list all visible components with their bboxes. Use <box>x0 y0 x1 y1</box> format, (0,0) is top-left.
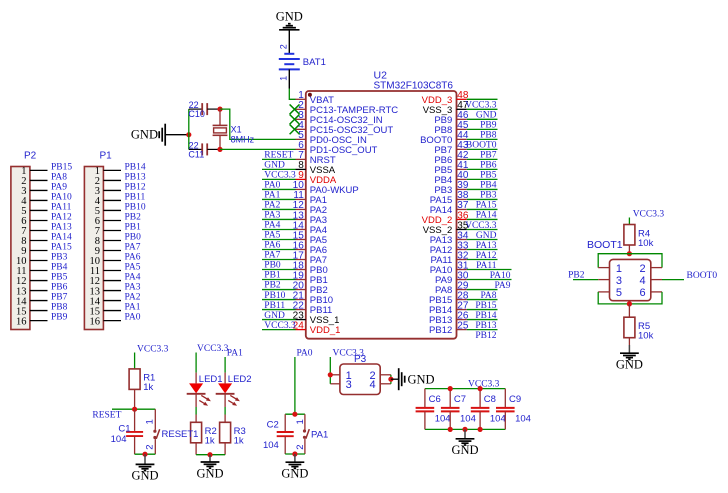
wire pin 11 net PA1 <box>262 198 296 200</box>
junction OSC_IN node <box>217 107 222 112</box>
ground (top, flipped) <box>276 10 303 30</box>
U2 pin 41 (PB5) <box>434 160 469 176</box>
wire P2 pin 16 net PB9 <box>30 320 48 322</box>
svg-text:PA13: PA13 <box>51 223 72 233</box>
junction jumper bottom <box>627 301 632 306</box>
wire pin 23 net GND <box>262 319 296 321</box>
wire pin 17 net PA7 <box>262 259 296 261</box>
U2 pin 45 (PB8) <box>434 120 469 136</box>
junction P3 left <box>328 372 333 377</box>
U2 pin 22 (PB11) <box>293 300 333 316</box>
svg-text:104: 104 <box>111 434 127 445</box>
wire R3 to gnd rail <box>224 443 226 455</box>
svg-text:PB15: PB15 <box>51 163 72 173</box>
svg-text:PB1: PB1 <box>264 271 281 281</box>
svg-text:GND: GND <box>131 469 158 483</box>
svg-text:P3: P3 <box>354 354 367 365</box>
wire OSC_IN to pin 5 <box>220 109 296 139</box>
U2 pin 36 (VDD_2) <box>422 210 469 226</box>
wire cap bank top rail <box>425 388 505 390</box>
wire pin 7 net RESET <box>262 158 296 160</box>
wire pin 40 net PB4 <box>467 178 498 180</box>
svg-text:C8: C8 <box>484 394 496 405</box>
svg-text:LED1: LED1 <box>199 374 223 385</box>
wire P1 pin 12 net PA4 <box>103 280 121 282</box>
U2 pin 40 (PB4) <box>434 170 469 186</box>
svg-text:P2: P2 <box>24 151 37 162</box>
svg-text:VCC3.3: VCC3.3 <box>264 321 296 331</box>
wire pin 47 net GND <box>467 108 498 110</box>
U2 pin 5 (PD0-OSC_IN) <box>296 130 367 146</box>
wire P2 pin 1 net PB15 <box>30 169 48 171</box>
svg-text:10k: 10k <box>638 331 654 342</box>
svg-text:5: 5 <box>616 287 622 299</box>
svg-text:STM32F103C8T6: STM32F103C8T6 <box>374 81 454 92</box>
ground (P3, sideways) <box>399 368 435 390</box>
svg-text:PA1: PA1 <box>311 430 328 441</box>
wire LED gnd rail <box>196 454 225 456</box>
svg-text:PB14: PB14 <box>125 163 146 173</box>
svg-text:GND: GND <box>131 128 158 142</box>
svg-text:PB6: PB6 <box>51 283 68 293</box>
wire P2 pin 11 net PB4 <box>30 270 48 272</box>
wire pin 12 net PA2 <box>262 208 296 210</box>
svg-text:GND: GND <box>196 466 223 480</box>
wire VCC3.3 to P3 <box>329 357 331 384</box>
wire pin 36 net VCC3.3 <box>467 218 498 220</box>
svg-text:1k: 1k <box>234 436 244 447</box>
svg-text:PB2: PB2 <box>568 271 585 281</box>
wire P2 pin 14 net PB7 <box>30 300 48 302</box>
wire P1 pin 3 net PB12 <box>103 189 121 191</box>
wire pin 30 net PA9 <box>467 279 512 281</box>
svg-text:2: 2 <box>145 444 156 449</box>
svg-text:PA15: PA15 <box>51 243 72 253</box>
svg-text:PB9: PB9 <box>51 313 68 323</box>
U2 pin 15 (PA5) <box>293 230 327 246</box>
wire P1 pin 8 net PB0 <box>103 239 121 241</box>
svg-text:PA11: PA11 <box>51 203 72 213</box>
svg-text:104: 104 <box>435 413 451 424</box>
svg-text:4: 4 <box>370 379 376 391</box>
ground (reset) <box>131 454 158 483</box>
junction cap bank C7 top <box>448 386 453 391</box>
U2 pin 19 (PB1) <box>293 270 328 286</box>
wire pin 18 net PB0 <box>262 269 296 271</box>
svg-text:2: 2 <box>279 44 289 49</box>
svg-text:1: 1 <box>616 263 622 275</box>
ground (LED) <box>196 455 223 481</box>
svg-text:GND: GND <box>616 358 643 372</box>
wire pin 20 net PB2 <box>262 289 296 291</box>
U2 pin 20 (PB2) <box>293 280 328 296</box>
svg-text:104: 104 <box>490 413 506 424</box>
wire P1 pin 2 net PB13 <box>103 179 121 181</box>
svg-text:VCC3.3: VCC3.3 <box>197 344 229 354</box>
junction oscillator gnd rail <box>186 132 191 137</box>
U2 pin 38 (PA15) <box>430 190 469 206</box>
junction reset rail <box>132 407 137 412</box>
svg-text:PA9: PA9 <box>51 183 67 193</box>
junction OSC_OUT node <box>217 147 222 152</box>
wire P2 pin 7 net PA13 <box>30 229 48 231</box>
wire P2 pin 5 net PA11 <box>30 209 48 211</box>
wire R4 to jumper <box>628 245 630 254</box>
svg-text:PB13: PB13 <box>125 173 146 183</box>
wire reset bottom rail <box>135 453 156 455</box>
svg-text:PA2: PA2 <box>125 293 141 303</box>
wire P1 pin 14 net PA2 <box>103 300 121 302</box>
wire pin 41 net PB5 <box>467 168 498 170</box>
svg-text:PB4: PB4 <box>51 263 68 273</box>
wire jumper bottom bracket <box>598 292 662 304</box>
junction cap bank gnd <box>462 427 467 432</box>
wire P2 pin 12 net PB5 <box>30 280 48 282</box>
U2 pin 23 (VSS_1) <box>293 310 340 326</box>
U2 pin 46 (PB9) <box>434 110 469 126</box>
wire net to LED2 <box>224 357 226 373</box>
svg-text:PA0: PA0 <box>125 313 141 323</box>
svg-text:PB12: PB12 <box>429 325 452 336</box>
wire R1 to reset rail <box>134 389 136 409</box>
wire pin 29 net PA8 <box>467 289 498 291</box>
svg-text:1: 1 <box>295 419 306 424</box>
wire P2 pin 2 net PA8 <box>30 179 48 181</box>
wire R2 to gnd rail <box>195 443 197 455</box>
U2 pin 16 (PA6) <box>293 240 327 256</box>
svg-text:PA0: PA0 <box>264 181 280 191</box>
wire P1 pin 16 net PA0 <box>103 320 121 322</box>
U2 pin 3 (PC14-OSC32_IN) <box>296 110 383 126</box>
U2 pin 18 (PB0) <box>293 260 328 276</box>
wire pin 28 net PB15 <box>467 299 498 301</box>
capacitor C9 (104) <box>496 389 531 430</box>
ground (button) <box>281 454 308 481</box>
wire pin 8 net GND <box>262 168 296 170</box>
svg-text:4: 4 <box>640 275 646 287</box>
capacitor C7 (104) <box>441 389 476 430</box>
wire battery to U2 pin1 <box>289 89 295 100</box>
capacitor C1 (104) <box>111 409 143 454</box>
svg-text:BOOT0: BOOT0 <box>687 271 718 281</box>
svg-text:X1: X1 <box>231 125 242 135</box>
capacitor C8 (104) <box>471 389 506 430</box>
svg-text:GND: GND <box>264 311 285 321</box>
U2 pin 9 (VDDA) <box>296 170 337 186</box>
wire VCC3.3 to R1 <box>134 353 136 369</box>
junction cap bank C8 bottom <box>478 427 483 432</box>
svg-text:C7: C7 <box>454 394 466 405</box>
svg-text:PB1: PB1 <box>125 223 142 233</box>
resistor R1 (1k) <box>129 369 155 393</box>
wire pin 38 net PA15 <box>467 198 498 200</box>
svg-text:BOOT1: BOOT1 <box>587 239 623 251</box>
wire pin 48 net VCC3.3 <box>467 98 498 100</box>
wire P3 to ground <box>391 378 399 380</box>
wire button top rail <box>285 413 305 415</box>
wire VCC3.3 to R4 <box>628 218 630 225</box>
svg-text:1k: 1k <box>205 436 215 447</box>
svg-text:104: 104 <box>263 440 279 451</box>
wire pin 15 net PA5 <box>262 238 296 240</box>
U2 pin 33 (PA12) <box>430 240 469 256</box>
wire P2 pin 3 net PA9 <box>30 189 48 191</box>
U2 pin 6 (PD1-OSC_OUT) <box>296 140 378 156</box>
svg-text:PA4: PA4 <box>264 221 280 231</box>
wire pin 27 net PB14 <box>467 309 498 311</box>
wire P1 pin 15 net PA1 <box>103 310 121 312</box>
wire P2 pin 6 net PA12 <box>30 219 48 221</box>
svg-text:U2: U2 <box>374 70 388 82</box>
svg-text:PA0: PA0 <box>297 348 313 358</box>
svg-text:GND: GND <box>264 161 285 171</box>
svg-text:2: 2 <box>640 263 646 275</box>
wire pin 24 net VCC3.3 <box>262 329 296 331</box>
svg-text:C2: C2 <box>267 419 279 430</box>
svg-text:VDD_1: VDD_1 <box>310 325 341 336</box>
no-connect X on pin 4 <box>290 124 300 134</box>
svg-text:10k: 10k <box>638 238 654 249</box>
connector P1 <box>84 151 112 330</box>
svg-text:PB10: PB10 <box>264 291 285 301</box>
U2 pin 43 (PB7) <box>434 140 469 156</box>
svg-text:PB3: PB3 <box>51 253 68 263</box>
capacitor C6 (104) <box>416 389 451 430</box>
junction button top <box>292 412 297 417</box>
wire P2 pin 10 net PB3 <box>30 260 48 262</box>
wire P1 pin 7 net PB1 <box>103 229 121 231</box>
svg-text:VCC3.3: VCC3.3 <box>468 379 500 389</box>
svg-text:C1: C1 <box>118 423 130 434</box>
U2 pin 13 (PA3) <box>293 210 327 226</box>
svg-text:PB2: PB2 <box>125 213 142 223</box>
wire P2 pin 9 net PA15 <box>30 250 48 252</box>
junction LED gnd <box>207 452 212 457</box>
wire pin 42 net PB6 <box>467 158 498 160</box>
switch PA1 (push button) <box>295 414 328 454</box>
connector BOOT jumper block <box>598 259 662 300</box>
wire pin 46 net PB9 <box>467 118 498 120</box>
svg-text:PA4: PA4 <box>125 273 141 283</box>
svg-text:PA12: PA12 <box>51 213 72 223</box>
junction P3 right <box>388 377 393 382</box>
junction jumper top <box>627 251 632 256</box>
wire jumper to R5 <box>628 304 630 317</box>
U2 pin 12 (PA2) <box>293 200 327 216</box>
connector P3 <box>330 354 391 395</box>
svg-text:RESET: RESET <box>264 151 293 161</box>
wire OSC_OUT to pin 6 <box>220 148 296 150</box>
wire P2 pin 13 net PB6 <box>30 290 48 292</box>
wire P2 pin 8 net PA14 <box>30 239 48 241</box>
capacitor C10 (22pF) <box>188 100 220 119</box>
svg-text:PA6: PA6 <box>125 253 141 263</box>
svg-text:3: 3 <box>616 275 622 287</box>
resistor R4 (10k) <box>624 225 654 249</box>
svg-text:C6: C6 <box>429 394 441 405</box>
ground (crystal, sideways) <box>131 124 165 146</box>
no-connect X on pin 2 <box>290 104 300 114</box>
wire pin 21 net PB10 <box>262 299 296 301</box>
svg-text:PA7: PA7 <box>125 243 141 253</box>
svg-text:VCC3.3: VCC3.3 <box>137 344 169 354</box>
wire P1 pin 13 net PA3 <box>103 290 121 292</box>
wire pin 35 net GND <box>467 228 498 230</box>
resistor R2 (1k) <box>191 422 217 446</box>
switch RESET1 (push button) <box>145 409 199 454</box>
junction cap bank C7 bottom <box>448 427 453 432</box>
svg-text:GND: GND <box>408 372 435 386</box>
resistor R5 (10k) <box>624 317 654 341</box>
svg-text:16: 16 <box>90 316 101 327</box>
svg-text:PA7: PA7 <box>264 251 280 261</box>
wire P1 pin 10 net PA6 <box>103 260 121 262</box>
junction button gnd <box>292 451 297 456</box>
LED LED2 <box>216 374 252 406</box>
svg-text:1: 1 <box>279 76 289 81</box>
wire pin 10 net PA0 <box>262 188 296 190</box>
wire pin 16 net PA6 <box>262 248 296 250</box>
svg-text:1k: 1k <box>143 382 153 393</box>
U2 pin 37 (PA14) <box>430 200 469 216</box>
wire LED2 to R3 <box>224 393 226 407</box>
svg-text:C10: C10 <box>188 109 205 119</box>
svg-text:PA3: PA3 <box>264 211 280 221</box>
U2 pin 30 (PA9) <box>435 270 469 286</box>
junction cap bank C8 top <box>478 386 483 391</box>
svg-text:PA1: PA1 <box>125 303 141 313</box>
svg-text:RESET: RESET <box>92 410 121 420</box>
wire pin 43 net PB7 <box>467 148 498 150</box>
wire PA0 down <box>294 357 296 414</box>
wire PB2 to jumper pin3 <box>573 279 598 281</box>
svg-text:PA8: PA8 <box>51 173 67 183</box>
svg-text:PB0: PB0 <box>125 233 142 243</box>
battery BAT1 <box>279 30 326 89</box>
wire LED1 to R2 <box>195 393 197 407</box>
wire jumper pin4 to BOOT0 <box>662 279 684 281</box>
wire pin 39 net PB3 <box>467 188 498 190</box>
U2 pin 26 (PB13) <box>429 310 469 326</box>
wire pin 19 net PB1 <box>262 279 296 281</box>
svg-text:PA14: PA14 <box>51 233 72 243</box>
junction reset gnd <box>142 452 147 457</box>
wire net to LED1 <box>195 353 197 373</box>
svg-text:PA1: PA1 <box>264 191 280 201</box>
svg-text:VCC3.3: VCC3.3 <box>264 171 296 181</box>
svg-text:PB12: PB12 <box>125 183 146 193</box>
svg-text:PB11: PB11 <box>125 193 146 203</box>
LED LED1 <box>187 374 223 406</box>
U2 pin 10 (PA0-WKUP) <box>293 180 359 196</box>
no-connect X on pin 3 <box>290 114 300 124</box>
U2 pin 39 (PB3) <box>434 180 469 196</box>
wire oscillator gnd vertical <box>188 109 190 149</box>
svg-text:6: 6 <box>640 287 646 299</box>
svg-text:PB7: PB7 <box>51 293 68 303</box>
svg-text:PB10: PB10 <box>125 203 146 213</box>
svg-text:PB12: PB12 <box>475 331 496 341</box>
svg-text:PA5: PA5 <box>264 231 280 241</box>
svg-text:104: 104 <box>515 413 531 424</box>
svg-text:PB0: PB0 <box>264 261 281 271</box>
wire pin 32 net PA11 <box>467 259 498 261</box>
svg-text:P1: P1 <box>100 151 113 162</box>
wire pin 9 net VCC3.3 <box>262 178 296 180</box>
wire ground to oscillator rail <box>166 134 189 136</box>
U2 pin 11 (PA1) <box>293 190 327 206</box>
svg-text:LED2: LED2 <box>228 374 252 385</box>
U2 pin 8 (VSSA) <box>296 160 336 176</box>
wire pin 33 net PA12 <box>467 248 498 250</box>
svg-text:PB2: PB2 <box>264 281 281 291</box>
svg-text:PB8: PB8 <box>51 303 68 313</box>
U2 pin 48 (VDD_3) <box>422 90 469 106</box>
svg-text:PA2: PA2 <box>264 201 280 211</box>
wire P2 pin 15 net PB8 <box>30 310 48 312</box>
wire P1 pin 11 net PA5 <box>103 270 121 272</box>
svg-text:RESET1: RESET1 <box>162 429 199 440</box>
svg-text:2: 2 <box>295 444 306 449</box>
wire pin 31 net PA10 <box>467 269 512 271</box>
U2 pin 1 (VBAT) <box>296 90 335 106</box>
U2 pin 47 (VSS_3) <box>423 100 469 116</box>
svg-text:16: 16 <box>16 316 27 327</box>
wire jumper top bracket <box>598 254 662 268</box>
ground (cap bank) <box>451 429 478 457</box>
wire P1 pin 1 net PB14 <box>103 169 121 171</box>
wire P1 pin 6 net PB2 <box>103 219 121 221</box>
crystal X1 (8MHz) <box>213 109 255 149</box>
svg-text:PA6: PA6 <box>264 241 280 251</box>
U2 pin 29 (PA8) <box>435 280 469 296</box>
svg-text:C11: C11 <box>188 150 204 160</box>
svg-text:1: 1 <box>145 419 156 424</box>
capacitor C11 (22pF) <box>188 140 220 159</box>
svg-text:PB11: PB11 <box>264 301 285 311</box>
svg-text:104: 104 <box>460 413 476 424</box>
U2 pin 7 (NRST) <box>296 150 336 166</box>
svg-text:GND: GND <box>276 10 303 24</box>
svg-text:PB5: PB5 <box>51 273 68 283</box>
wire pin 25 net PB12 <box>467 329 498 331</box>
U2 pin 31 (PA10) <box>430 260 469 276</box>
wire pin 22 net PB11 <box>262 309 296 311</box>
wire pin 37 net PA14 <box>467 208 498 210</box>
ground (boot) <box>616 345 643 372</box>
svg-text:PA1: PA1 <box>227 349 243 359</box>
U2 pin 25 (PB12) <box>429 320 469 336</box>
wire R5 to ground <box>628 338 630 345</box>
U2 pin 44 (BOOT0) <box>420 130 469 146</box>
wire pin 45 net PB8 <box>467 128 498 130</box>
U2 pin 32 (PA11) <box>430 250 468 266</box>
U2 pin 2 (PC13-TAMPER-RTC) <box>296 100 399 116</box>
svg-text:PA10: PA10 <box>51 193 72 203</box>
svg-text:BAT1: BAT1 <box>303 57 326 68</box>
U2 pin 27 (PB14) <box>429 300 469 316</box>
U2 pin 14 (PA4) <box>293 220 327 236</box>
wire pin 26 net PB13 <box>467 319 498 321</box>
U2 pin 34 (PA13) <box>430 230 469 246</box>
U2 pin 4 (PC15-OSC32_OUT) <box>296 120 394 136</box>
wire pin 14 net PA4 <box>262 228 296 230</box>
capacitor C2 (104) <box>263 414 294 454</box>
svg-text:3: 3 <box>346 379 352 391</box>
wire P2 pin 4 net PA10 <box>30 199 48 201</box>
svg-text:PA5: PA5 <box>125 263 141 273</box>
svg-text:PA3: PA3 <box>125 283 141 293</box>
